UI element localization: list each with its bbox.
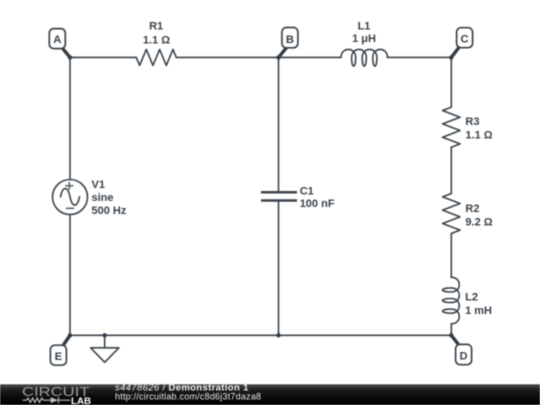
node flag A [49,29,65,49]
V1 plus sign [65,182,74,209]
junction dot C [449,55,453,59]
svg-text:1 mH: 1 mH [465,305,492,317]
node flag D tail [451,335,460,346]
junction dot D [449,333,453,337]
svg-text:100 nF: 100 nF [300,198,335,210]
svg-text:R2: R2 [465,203,479,215]
svg-text:C1: C1 [300,186,314,198]
junction dot E [68,333,72,337]
wire V1 to E [69,215,71,336]
wire C down to R3 [450,57,452,107]
node flag D [456,344,472,364]
V1 sine wave [61,189,80,206]
resistor R2 [443,194,461,234]
wire bottom E to ground [70,334,105,336]
junction dot A [68,55,454,337]
svg-text:L2: L2 [465,292,478,304]
svg-text:L1: L1 [358,21,371,33]
wire R1 to B [176,56,278,58]
capacitor C1 plates [261,192,297,200]
wire A down to V1 [69,57,71,179]
wire ground to C1 branch [105,334,279,336]
svg-text:R1: R1 [149,21,163,33]
svg-text:1.1 Ω: 1.1 Ω [143,34,170,46]
junction dot ground [103,333,107,337]
resistor R1 [136,49,176,65]
svg-text:E: E [55,351,63,363]
junction dot B [276,55,280,59]
voltage source V1 circle [53,180,88,215]
logo diode triangle [51,397,59,403]
wire B down to C1 [278,57,280,191]
svg-text:9.2 Ω: 9.2 Ω [465,217,492,229]
node flag E [50,345,66,365]
node flag A tail [61,46,71,58]
svg-text:1 μH: 1 μH [352,33,376,45]
node flag C [457,28,473,48]
svg-text:A: A [53,34,61,46]
wire R2 to L2 [450,234,452,278]
wire B to L1 [279,56,342,58]
svg-text:V1: V1 [92,179,105,191]
inductor L2 [443,277,460,324]
resistor R3 [443,107,461,147]
node flag B tail [279,46,288,57]
svg-text:C: C [461,33,469,45]
wire L1 to C [387,56,451,58]
svg-text:R3: R3 [465,116,479,128]
ground stem [104,335,106,348]
svg-text:B: B [286,34,294,46]
ground triangle [91,348,119,363]
wire R3 to R2 [450,147,452,193]
svg-text:http://circuitlab.com/c8d6j3t7: http://circuitlab.com/c8d6j3t7daza8 [115,391,261,401]
V1 minus sign [66,207,74,209]
wire A to R1 [70,56,136,58]
svg-text:LAB: LAB [71,396,91,405]
junction dot C1 bottom [276,333,280,337]
logo wire with resistor and diode [23,397,71,403]
wire C1 to bottom [278,202,280,335]
node flag E tail [62,335,70,347]
svg-text:D: D [460,350,468,362]
node flag B [282,28,298,48]
svg-text:500 Hz: 500 Hz [92,205,127,217]
inductor L1 [341,49,388,66]
node flag C tail [451,45,460,57]
svg-text:sine: sine [92,192,114,204]
wire C1 branch to D [279,334,452,336]
wire L2 to D [450,324,452,336]
svg-text:1.1 Ω: 1.1 Ω [465,130,492,142]
